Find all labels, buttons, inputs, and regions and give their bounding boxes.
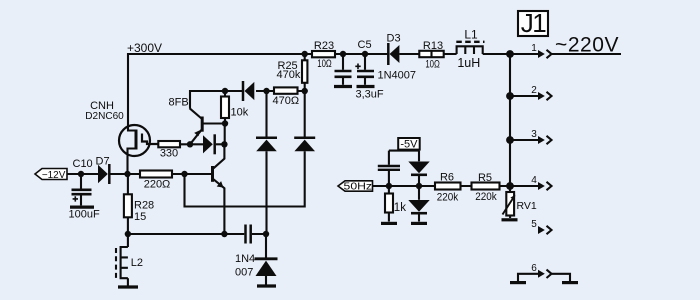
wire pin6 left [518, 274, 538, 281]
wire -12V to D7 [67, 173, 98, 175]
svg-text:1: 1 [531, 43, 537, 54]
svg-text:D7: D7 [96, 155, 110, 167]
resistor R6 [435, 183, 461, 190]
svg-text:D3: D3 [387, 33, 401, 45]
svg-text:10k: 10k [231, 107, 249, 119]
pin 6 arrow [538, 270, 552, 278]
junction dot pin3 [506, 136, 514, 144]
diode -5V lower [408, 186, 429, 222]
resistor 330 [158, 141, 180, 147]
wire 330 to diode B [180, 143, 203, 145]
wire bottom rail [128, 233, 266, 235]
junction dot pin4 [506, 182, 514, 190]
resistor R13 [419, 51, 443, 57]
trimmer RV1 [503, 192, 516, 216]
ground pin6 right [562, 281, 578, 284]
ground RV1 [502, 218, 518, 221]
resistor 470ohm [274, 87, 298, 93]
svg-text:220Ω: 220Ω [144, 179, 171, 191]
svg-text:007: 007 [235, 267, 253, 279]
wire connector bus vertical [509, 54, 511, 192]
diode B [203, 134, 215, 154]
svg-text:C10: C10 [73, 158, 93, 170]
svg-text:R28: R28 [134, 200, 154, 212]
inductor L1 [456, 42, 484, 54]
ground pin6 left [510, 281, 526, 284]
junction dot emitter Q1 [187, 141, 193, 147]
svg-text:R23: R23 [314, 40, 334, 52]
ground under C5 film part [334, 85, 352, 88]
pin 5 arrow [538, 226, 552, 234]
svg-text:1uH: 1uH [457, 56, 480, 70]
capacitor C5 electrolytic part with plus [355, 54, 374, 85]
junction dot pin2 [506, 92, 514, 100]
svg-text:8FB: 8FB [169, 97, 189, 109]
svg-text:330: 330 [160, 148, 178, 160]
capacitor C5 film part [335, 54, 352, 85]
junction dot Q2 base node [181, 171, 187, 177]
resistor 10k [221, 91, 229, 124]
svg-text:1N4007: 1N4007 [378, 70, 417, 82]
ground under -5V lower diode [411, 222, 427, 225]
junction dot Q1 base [222, 120, 228, 126]
ground under C5 electrolytic part [357, 85, 375, 88]
wire RV1 to ground [509, 216, 511, 219]
wire pin2 [510, 95, 538, 97]
svg-text:C5: C5 [358, 39, 372, 51]
svg-text:50Hz: 50Hz [344, 182, 373, 193]
svg-text:2: 2 [531, 85, 537, 96]
resistor R5 [472, 183, 500, 190]
capacitor -5V filter [378, 151, 400, 186]
pin 4 arrow [538, 182, 552, 190]
resistor 220ohm [140, 171, 172, 178]
svg-text:15: 15 [134, 211, 146, 223]
resistor R25 [302, 54, 307, 91]
resistor R28 [124, 174, 132, 234]
wire D7 to gate node [111, 173, 141, 175]
inductor L2 [116, 234, 128, 286]
svg-text:D2NC60: D2NC60 [85, 110, 124, 122]
svg-text:+300V: +300V [127, 41, 162, 55]
svg-text:J1: J1 [521, 8, 547, 38]
svg-text:3,3uF: 3,3uF [356, 89, 384, 101]
node -5V box [398, 138, 420, 150]
big diode R [294, 91, 315, 151]
junction dot rail left [125, 231, 131, 237]
diode 1N4007 bottom [255, 234, 278, 285]
diode D3 [388, 43, 399, 65]
junction dot R25 top [302, 51, 308, 57]
wire pin1 [510, 53, 538, 55]
diode -5V upper [408, 151, 429, 186]
svg-text:220k: 220k [437, 192, 459, 204]
svg-text:6: 6 [531, 263, 537, 274]
big diode L [256, 91, 277, 234]
junction dot C5a [340, 51, 346, 57]
pin 2 arrow [538, 92, 552, 100]
junction dot collector node [221, 141, 227, 147]
svg-text:220k: 220k [475, 191, 497, 203]
junction dot rail right [263, 231, 269, 237]
transistor Q2 [213, 144, 225, 234]
junction dot gate node [124, 171, 130, 177]
node -12V flag [35, 169, 67, 180]
wire 220 to Q2 base [172, 173, 211, 175]
svg-text:470k: 470k [277, 69, 301, 81]
svg-text:L2: L2 [131, 257, 143, 269]
svg-text:10Ω: 10Ω [317, 58, 332, 70]
capacitor bottom rail [246, 225, 251, 244]
mosfet CNH D2NC60 [119, 125, 158, 174]
svg-text:10Ω: 10Ω [425, 59, 440, 71]
capacitor C10 [72, 174, 92, 205]
resistor 1k [385, 186, 393, 222]
resistor R23 [312, 51, 335, 57]
wire diode B to collector node [216, 143, 224, 145]
svg-text:RV1: RV1 [517, 200, 537, 212]
junction dot R25 bottom [302, 88, 308, 94]
wire 10k bottom to collector node [224, 124, 226, 145]
wire -5V top rail [389, 150, 419, 152]
wire pin6 right [552, 274, 570, 281]
wire +300V rail top [128, 54, 510, 126]
junction dot C10 [78, 171, 84, 177]
junction dot cap 50Hz [386, 183, 392, 189]
junction dot 10k top [222, 88, 228, 94]
wire 50Hz net [373, 185, 511, 187]
junction dot big diode L top [263, 88, 269, 94]
diode A [243, 81, 254, 101]
wire Q2 base node to diode R bottom [185, 151, 305, 206]
pin 1 arrow [538, 50, 552, 58]
svg-text:5: 5 [531, 219, 537, 230]
ground under L2 [118, 285, 138, 288]
svg-text:4: 4 [531, 175, 537, 186]
wire 470 net upper [190, 91, 305, 108]
svg-text:−12V: −12V [42, 170, 66, 181]
ground under 1k [381, 222, 397, 225]
wire pin3 [510, 139, 538, 141]
wire ~220V stub [552, 53, 621, 55]
transistor Q1 8FB [190, 108, 203, 144]
ground under C10 [70, 206, 94, 209]
svg-text:L1: L1 [464, 27, 478, 41]
pin 3 arrow [538, 136, 552, 144]
junction dot Q2 emitter [221, 231, 227, 237]
wire Q1 base [204, 122, 226, 124]
svg-text:3: 3 [531, 129, 537, 140]
wire pin4 [510, 185, 538, 187]
junction dot pin1 [506, 50, 514, 58]
node 50Hz flag [338, 181, 373, 191]
ground under 1N4007 [257, 284, 276, 287]
svg-text:1k: 1k [394, 202, 406, 214]
svg-text:1N4: 1N4 [235, 253, 255, 265]
junction dot diodes 50Hz [416, 183, 422, 189]
junction dot C5b [362, 51, 368, 57]
svg-text:-5V: -5V [400, 138, 418, 150]
svg-text:470Ω: 470Ω [273, 95, 300, 107]
connector J1 box [518, 11, 548, 36]
svg-text:100uF: 100uF [69, 209, 100, 221]
diode D7 [98, 164, 109, 184]
